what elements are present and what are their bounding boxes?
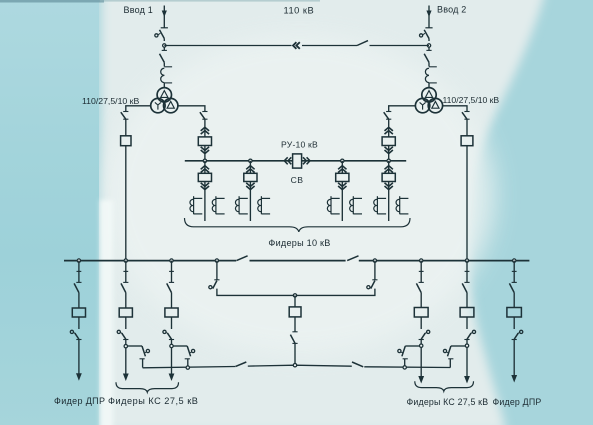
disconnector section link left (216, 261, 218, 280)
node input 1 / 110 kV tie (163, 44, 166, 47)
node input 2 / 110 kV tie (427, 44, 430, 47)
disconnector below breaker КС2 (171, 318, 173, 330)
disconnector below breaker КС4 (466, 318, 468, 330)
wire feeder КС4 with arrow (466, 347, 468, 376)
disconnector section link right (374, 261, 376, 280)
svg-text:110/27,5/10 кВ: 110/27,5/10 кВ (443, 95, 500, 105)
disconnector T2 10 kV branch (384, 112, 389, 119)
svg-text:Фидер ДПР: Фидер ДПР (493, 397, 542, 407)
wire T2 27,5 branch down to main 27,5 bus (466, 146, 468, 261)
disconnector in bypass bus left (235, 362, 246, 367)
breaker withdrawable feeder 10 kV #1 (204, 161, 206, 174)
wire feeder КС1 with arrow (125, 348, 127, 374)
breaker feeder КС2 (165, 308, 178, 317)
jumper chevrons on 110 kV tie (293, 42, 296, 49)
disconnector T1 10 kV branch (200, 112, 205, 119)
feeder ДПР right disconnector (513, 261, 515, 272)
breaker bus-section 27,5 kV (294, 295, 296, 307)
wire feeder 10 kV #2 down (249, 182, 251, 222)
disconnector in 110 kV tie (357, 41, 368, 46)
wire T2 to 27,5 kV branch (443, 106, 467, 111)
disconnector below breaker ДПР right (513, 318, 515, 330)
svg-text:Ввод 2: Ввод 2 (437, 4, 466, 14)
brace Фидеры КС 27,5 кВ right (415, 381, 474, 391)
svg-text:Фидеры КС 27,5 кВ: Фидеры КС 27,5 кВ (108, 396, 198, 406)
node feeder КС4 on bus (shared with T2 drop) (465, 259, 468, 262)
disconnector in 27,5 bus right (347, 256, 358, 261)
breaker feeder КС4 (460, 308, 474, 318)
disconnector below breaker КС1 (125, 318, 127, 330)
transformer T2 110/27,5/10 (422, 88, 436, 102)
wire feeder ДПР left with arrow (78, 340, 80, 374)
bus 27,5 kV main (64, 260, 236, 262)
breaker feeder КС3 (414, 308, 428, 318)
svg-text:Фидеры КС 27,5 кВ: Фидеры КС 27,5 кВ (407, 397, 489, 407)
node on bypass bus center (293, 364, 296, 367)
current transformer pair feeder 10 kV #1 (193, 196, 195, 214)
node T2 infeed on 10 kV bus (387, 159, 390, 162)
wire feeder КС3 with arrow (420, 347, 422, 376)
incoming line Ввод 2 arrow (428, 6, 430, 28)
svg-text:СВ: СВ (291, 175, 304, 185)
disconnector QS1a (input 1 upper) (160, 30, 165, 39)
breaker withdrawable feeder 10 kV #4 (388, 161, 390, 174)
svg-text:110/27,5/10 кВ: 110/27,5/10 кВ (82, 96, 139, 106)
wire 110 kV tie line (164, 45, 291, 47)
wire T1 27,5 branch down to main 27,5 bus (125, 146, 127, 261)
node feeder ДПР left on bus (77, 259, 80, 262)
svg-text:Фидеры 10 кВ: Фидеры 10 кВ (268, 238, 330, 248)
bypass disconnector КС1 (127, 345, 142, 347)
wire T1 to 10 kV branch (178, 106, 205, 111)
node feeder ДПР right on bus (513, 259, 516, 262)
node section link right on 27,5 bus (373, 259, 376, 262)
node feeder КС2 split (171, 340, 173, 345)
disconnector T2 27,5 branch (462, 112, 467, 119)
node КС2 bypass on bypass bus (186, 366, 189, 369)
bypass disconnector КС4 (451, 345, 466, 347)
disconnector QS2a (input 2 upper) (424, 30, 429, 39)
background left cyan band (0, 0, 99, 425)
disconnector QS1b (input 1 lower) (162, 49, 167, 51)
breaker Q4 (T2 27,5 kV side) (461, 136, 473, 146)
disconnector below section breaker (294, 317, 296, 332)
breaker withdrawable feeder 10 kV #2 (249, 161, 251, 174)
wire feeder ДПР right with arrow (513, 340, 515, 376)
brace Фидеры КС 27,5 кВ left (116, 382, 179, 392)
wire T1 to 27,5 kV branch (126, 106, 151, 111)
wire feeder 10 kV #4 down (388, 182, 390, 222)
disconnector in 27,5 bus left (237, 256, 248, 261)
node section link left on 27,5 bus (215, 259, 218, 262)
feeder 10 kV #3 node on bus (341, 159, 344, 162)
svg-text:РУ-10 кВ: РУ-10 кВ (281, 139, 318, 149)
svg-text:Фидер ДПР: Фидер ДПР (54, 396, 105, 406)
bypass disconnector КС2 (173, 345, 187, 347)
node feeder КС2 on bus (170, 259, 173, 262)
current transformer pair feeder 10 kV #2 (238, 196, 240, 214)
brace Фидеры 10 кВ (185, 218, 411, 232)
current transformer pair feeder 10 kV #4 (376, 196, 378, 214)
bus bypass 27,5 kV (143, 367, 235, 368)
svg-text:Ввод 1: Ввод 1 (124, 5, 153, 15)
disconnector in bypass bus right (352, 362, 363, 367)
disconnector T1 27,5 branch (121, 112, 126, 119)
feeder КС4 disconnector (466, 261, 468, 272)
node feeder КС4 split (466, 340, 468, 345)
breaker feeder ДПР right (507, 308, 522, 318)
feeder КС3 disconnector (420, 261, 422, 272)
breaker Q2 withdrawable (T1 10 kV infeed) (201, 127, 209, 131)
transformer T1 110/27,5/10 (157, 88, 171, 102)
node center of section link (293, 294, 296, 297)
feeder ДПР left disconnector (78, 261, 80, 272)
surge winding / coil above transformer T2 (429, 66, 437, 68)
wire feeder 10 kV #3 down (341, 182, 343, 222)
disconnector QS2b (input 2 lower) (426, 49, 431, 51)
breaker feeder ДПР left (72, 308, 85, 317)
bus section breaker СВ (284, 157, 287, 164)
breaker withdrawable feeder 10 kV #3 (341, 161, 343, 174)
node КС3 bypass on bypass bus (403, 366, 406, 369)
wire T2 to 10 kV branch (389, 106, 416, 111)
wire feeder 10 kV #1 down (204, 182, 206, 222)
feeder 10 kV #2 node on bus (249, 159, 252, 162)
bus 10 kV (185, 160, 292, 162)
disconnector below breaker КС3 (420, 318, 422, 330)
incoming line Ввод 1 arrow (163, 6, 165, 28)
breaker Q3 withdrawable (T2 10 kV infeed) (385, 127, 393, 131)
feeder КС1 disconnector (125, 261, 127, 272)
node feeder КС1 split (125, 340, 127, 345)
background light page area (101, 0, 548, 425)
breaker Q1 (T1 27,5 kV side) (121, 136, 131, 146)
node feeder КС3 on bus (420, 259, 423, 262)
background bright strip near page edge (100, 200, 113, 425)
node feeder КС3 split (420, 340, 422, 345)
surge winding / coil above transformer T1 (164, 66, 172, 68)
feeder КС2 disconnector (171, 261, 173, 272)
breaker feeder КС1 (119, 308, 132, 317)
bypass disconnector КС3 (405, 345, 419, 347)
background top dark edge (0, 0, 104, 3)
disconnector below breaker ДПР left (78, 318, 80, 330)
current transformer pair feeder 10 kV #3 (330, 196, 332, 214)
svg-text:110 кВ: 110 кВ (284, 6, 315, 16)
node T1 infeed on 10 kV bus (203, 159, 206, 162)
node feeder КС1 on bus (shared with T1 drop) (124, 259, 127, 262)
wire feeder КС2 with arrow (171, 348, 173, 374)
